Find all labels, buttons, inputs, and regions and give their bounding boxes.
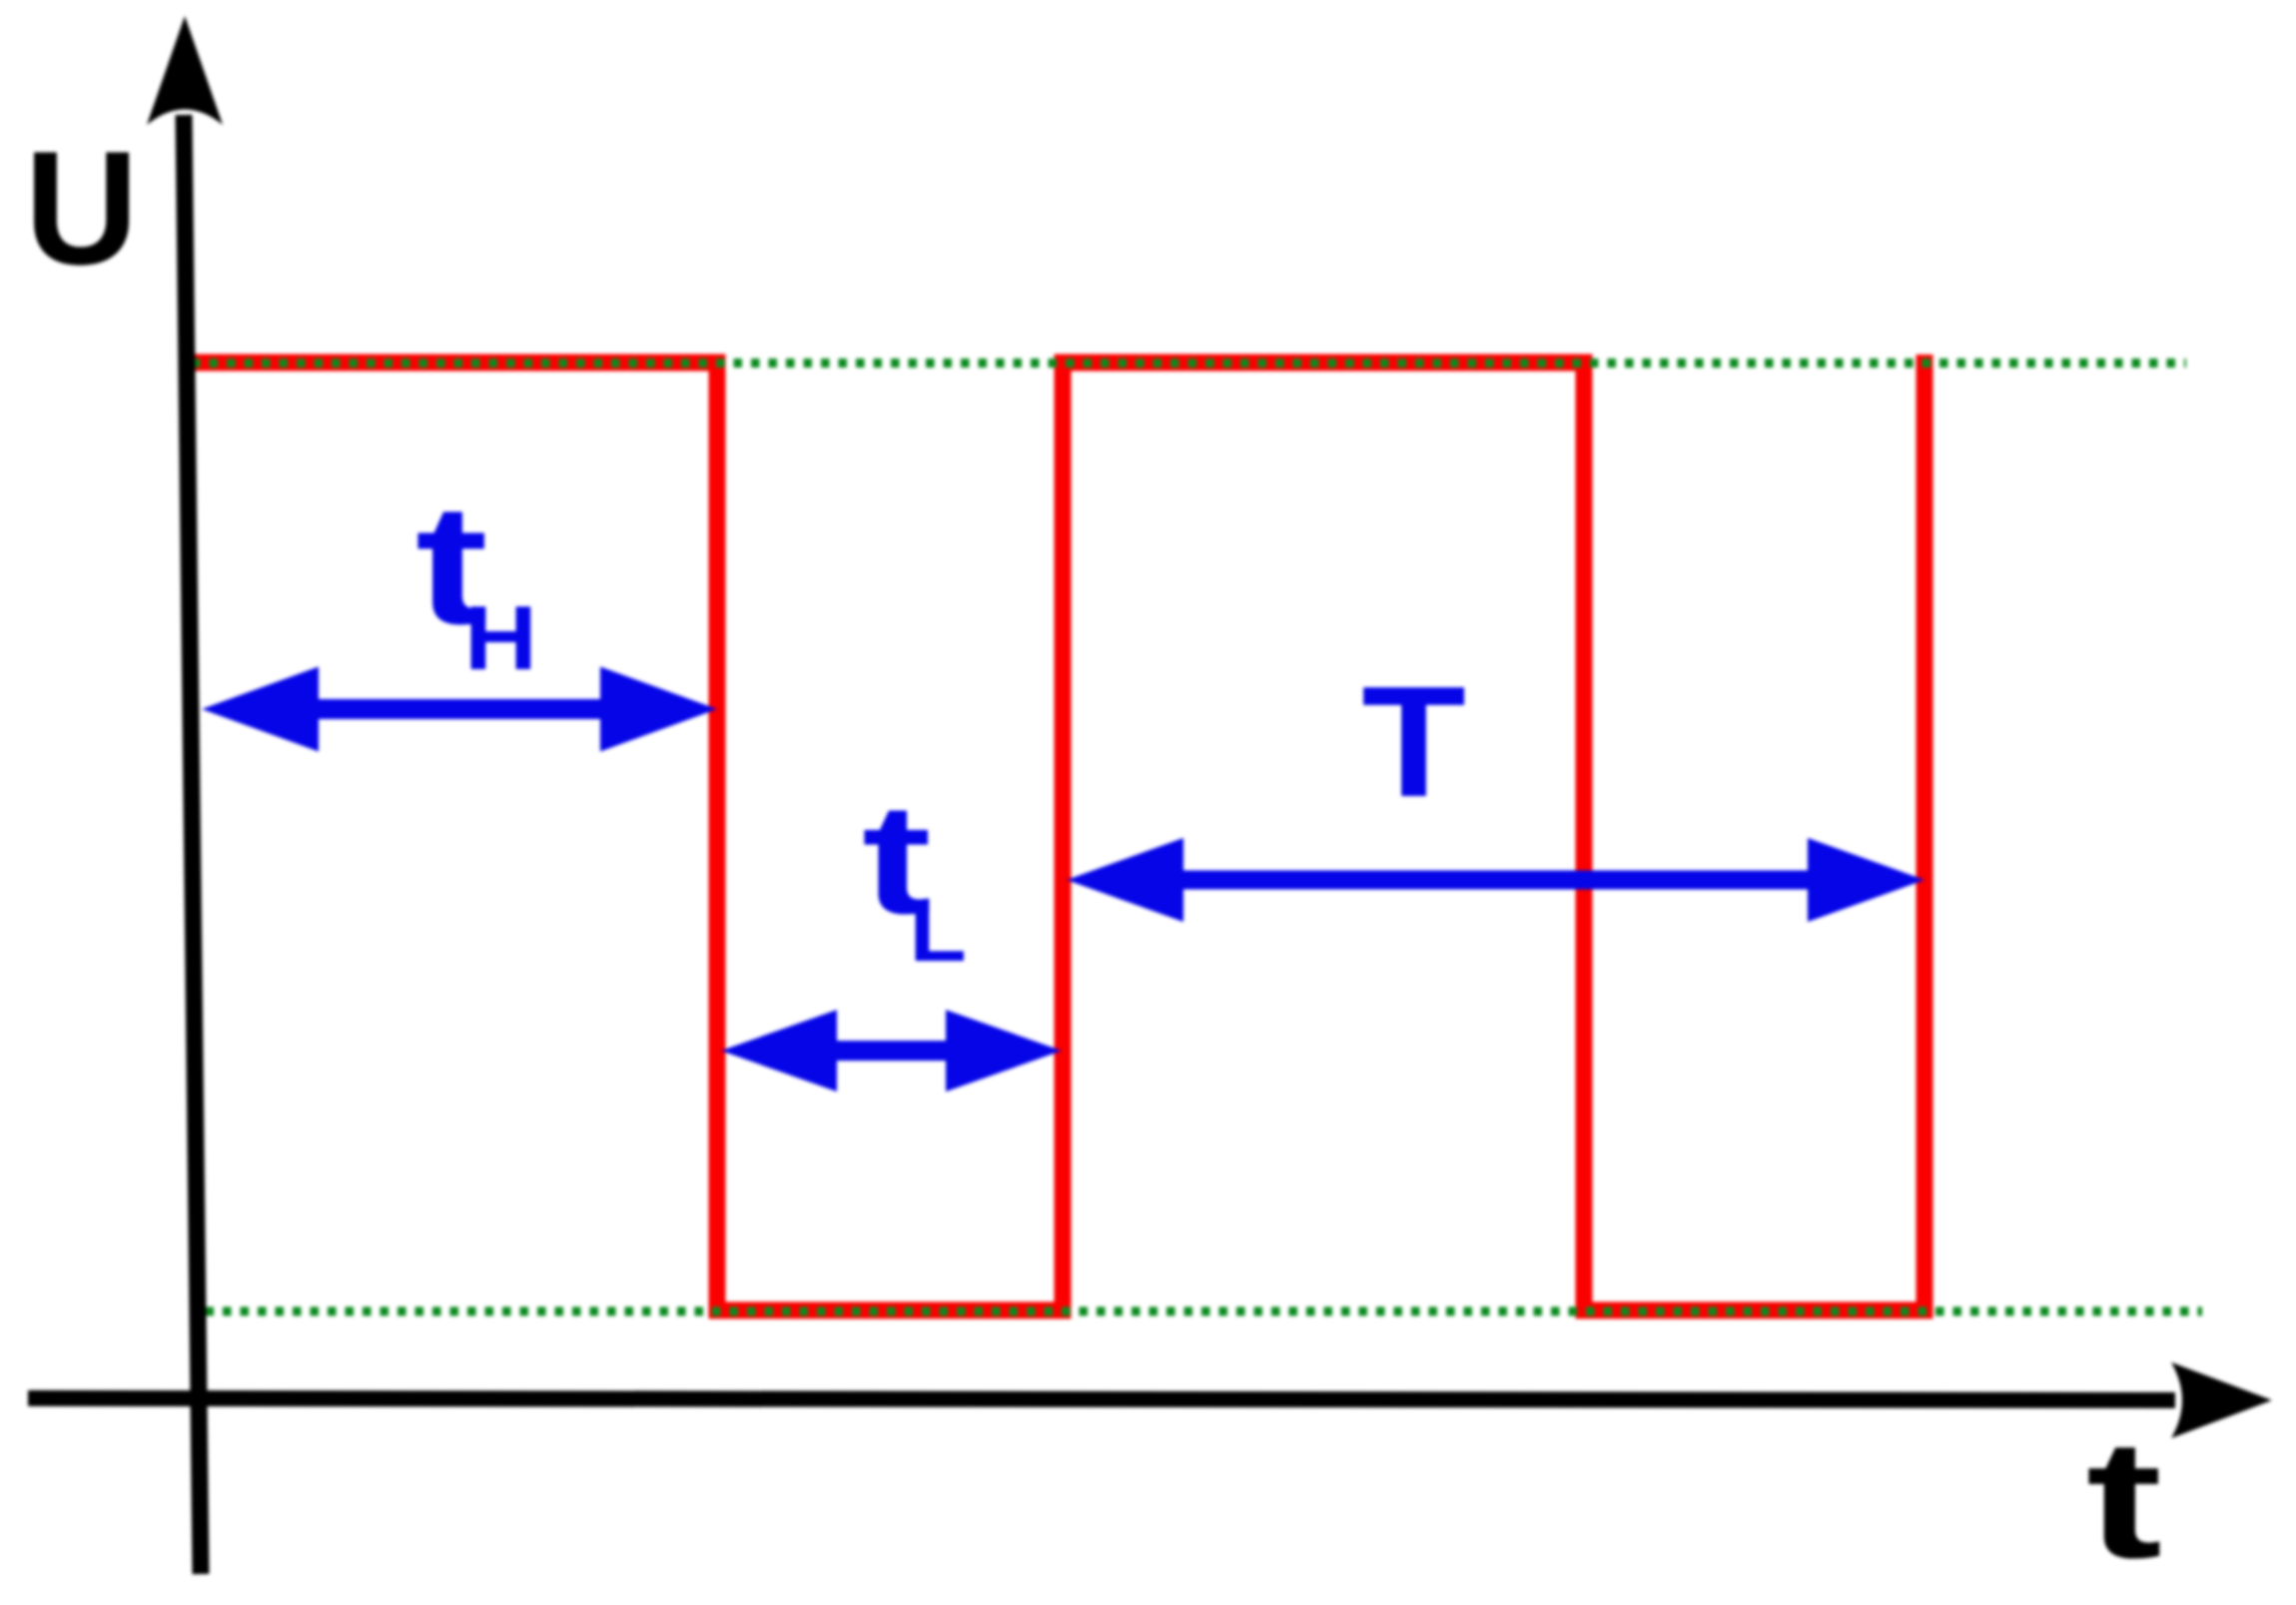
arrow tL bbox=[721, 1010, 1062, 1092]
label U bbox=[25, 117, 139, 298]
y-axis bbox=[147, 16, 223, 1574]
svg-text:L: L bbox=[909, 883, 966, 980]
label t (time axis) bbox=[2086, 1405, 2162, 1593]
label tL bbox=[862, 772, 967, 981]
svg-text:t: t bbox=[2086, 1405, 2162, 1593]
arrow T bbox=[1067, 838, 1924, 922]
green dotted high-level line bbox=[192, 359, 2186, 368]
red PWM waveform bbox=[193, 355, 1924, 1310]
label T bbox=[1361, 653, 1466, 829]
green dotted low-level line bbox=[206, 1307, 2203, 1316]
svg-text:T: T bbox=[1361, 653, 1466, 829]
svg-text:U: U bbox=[25, 117, 139, 298]
svg-text:H: H bbox=[464, 588, 537, 689]
arrow tH bbox=[202, 667, 717, 752]
x-axis bbox=[28, 1362, 2272, 1438]
label tH bbox=[415, 468, 537, 689]
